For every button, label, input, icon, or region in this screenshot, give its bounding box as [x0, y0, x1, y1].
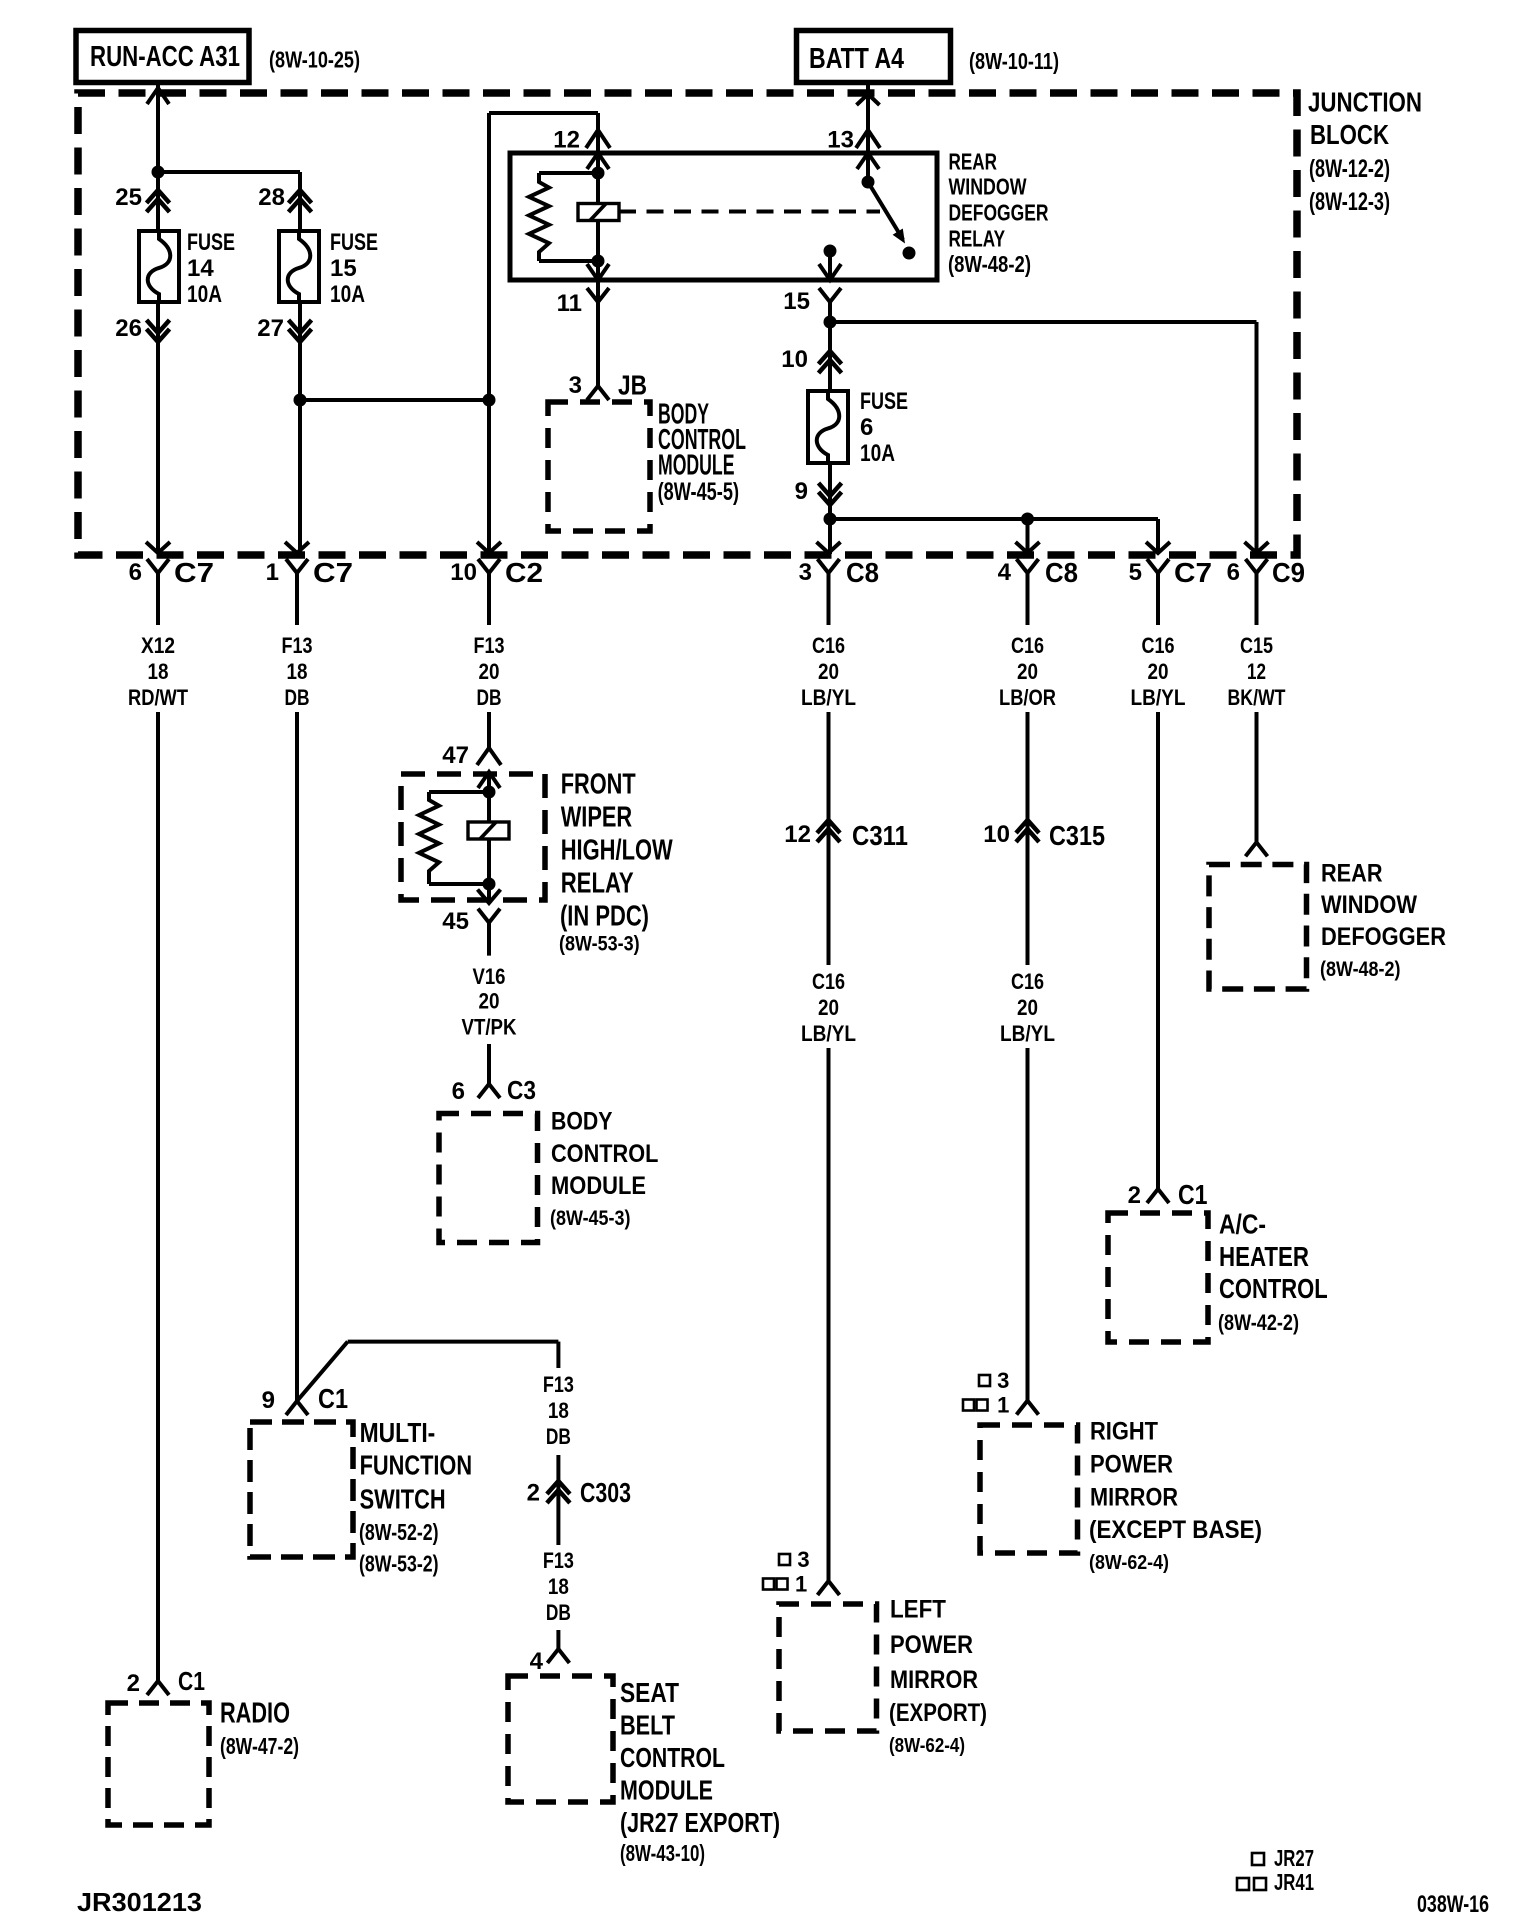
svg-text:2: 2: [127, 1670, 140, 1697]
svg-text:POWER: POWER: [890, 1631, 973, 1659]
svg-text:C303: C303: [580, 1477, 631, 1508]
svg-text:VT/PK: VT/PK: [462, 1014, 517, 1039]
svg-text:3: 3: [569, 372, 582, 399]
svg-text:9: 9: [262, 1387, 275, 1414]
svg-text:(8W-45-5): (8W-45-5): [658, 478, 739, 506]
svg-text:13: 13: [827, 127, 854, 154]
svg-text:(8W-53-2): (8W-53-2): [359, 1551, 439, 1577]
svg-text:18: 18: [548, 1398, 569, 1423]
svg-text:WIPER: WIPER: [561, 802, 633, 834]
svg-text:BODY: BODY: [551, 1107, 613, 1135]
svg-text:C311: C311: [852, 820, 908, 851]
svg-text:JR27: JR27: [1274, 1845, 1314, 1871]
svg-text:(8W-53-3): (8W-53-3): [559, 933, 640, 956]
svg-text:10A: 10A: [187, 281, 222, 308]
svg-text:FUSE: FUSE: [187, 229, 235, 256]
svg-text:CONTROL: CONTROL: [551, 1140, 658, 1168]
svg-text:WINDOW: WINDOW: [949, 174, 1027, 200]
svg-text:JB: JB: [618, 370, 647, 401]
svg-text:SWITCH: SWITCH: [360, 1483, 446, 1514]
svg-text:FRONT: FRONT: [561, 769, 636, 801]
svg-text:1: 1: [795, 1572, 807, 1597]
svg-text:6: 6: [129, 559, 142, 586]
svg-text:SEAT: SEAT: [620, 1677, 679, 1708]
svg-text:C16: C16: [1142, 633, 1175, 658]
svg-text:(8W-48-2): (8W-48-2): [1320, 958, 1401, 981]
svg-text:10A: 10A: [860, 440, 895, 467]
svg-text:(8W-62-4): (8W-62-4): [1089, 1552, 1169, 1574]
svg-text:BELT: BELT: [620, 1710, 675, 1741]
svg-text:9: 9: [795, 478, 808, 505]
svg-text:(8W-12-2): (8W-12-2): [1309, 155, 1390, 183]
svg-text:RUN-ACC A31: RUN-ACC A31: [90, 41, 240, 73]
svg-text:F13: F13: [543, 1548, 574, 1573]
svg-text:CONTROL: CONTROL: [620, 1742, 725, 1773]
svg-text:BK/WT: BK/WT: [1228, 685, 1286, 710]
svg-text:(8W-48-2): (8W-48-2): [948, 251, 1031, 277]
svg-text:REAR: REAR: [949, 149, 998, 175]
svg-text:LEFT: LEFT: [890, 1596, 946, 1624]
svg-text:JR301213: JR301213: [77, 1887, 202, 1917]
svg-text:BLOCK: BLOCK: [1310, 119, 1389, 150]
svg-text:FUSE: FUSE: [860, 388, 908, 415]
svg-text:RADIO: RADIO: [220, 1698, 290, 1730]
svg-text:C9: C9: [1272, 557, 1305, 588]
svg-text:26: 26: [115, 315, 142, 342]
svg-text:C1: C1: [1178, 1179, 1208, 1210]
svg-text:47: 47: [442, 742, 469, 769]
svg-text:C2: C2: [505, 557, 543, 588]
svg-text:1: 1: [997, 1393, 1009, 1418]
svg-text:(IN PDC): (IN PDC): [560, 901, 649, 933]
svg-text:(8W-43-10): (8W-43-10): [620, 1840, 705, 1866]
svg-text:10: 10: [781, 346, 808, 373]
svg-text:A/C-: A/C-: [1219, 1209, 1266, 1240]
svg-text:FUNCTION: FUNCTION: [360, 1450, 473, 1481]
svg-text:C7: C7: [313, 557, 353, 588]
svg-text:20: 20: [1017, 659, 1038, 684]
svg-text:1: 1: [266, 559, 279, 586]
svg-text:X12: X12: [141, 633, 175, 658]
svg-text:POWER: POWER: [1090, 1450, 1173, 1478]
svg-text:(8W-47-2): (8W-47-2): [220, 1733, 299, 1759]
svg-text:25: 25: [115, 184, 142, 211]
svg-text:RELAY: RELAY: [949, 226, 1006, 252]
svg-text:DEFOGGER: DEFOGGER: [1321, 923, 1446, 951]
svg-text:C16: C16: [812, 633, 845, 658]
svg-text:14: 14: [187, 255, 214, 282]
svg-text:DB: DB: [546, 1424, 571, 1449]
svg-text:4: 4: [530, 1648, 544, 1675]
svg-text:LB/YL: LB/YL: [1131, 685, 1186, 710]
svg-text:10A: 10A: [330, 281, 365, 308]
svg-text:MIRROR: MIRROR: [890, 1666, 978, 1694]
svg-text:45: 45: [442, 908, 469, 935]
svg-text:10: 10: [450, 559, 477, 586]
svg-text:MODULE: MODULE: [620, 1775, 713, 1806]
svg-text:3: 3: [799, 559, 812, 586]
svg-text:C7: C7: [1174, 557, 1212, 588]
svg-text:12: 12: [1247, 659, 1266, 684]
svg-text:WINDOW: WINDOW: [1321, 891, 1417, 919]
svg-text:C8: C8: [1045, 557, 1078, 588]
svg-text:BATT A4: BATT A4: [809, 43, 904, 75]
svg-text:(8W-12-3): (8W-12-3): [1309, 188, 1390, 216]
svg-text:18: 18: [287, 659, 308, 684]
svg-text:C1: C1: [318, 1383, 348, 1414]
svg-text:28: 28: [258, 184, 285, 211]
svg-text:C3: C3: [507, 1075, 536, 1105]
svg-text:DB: DB: [477, 685, 502, 710]
svg-text:C1: C1: [178, 1666, 205, 1696]
svg-text:HIGH/LOW: HIGH/LOW: [561, 835, 673, 867]
svg-text:LB/OR: LB/OR: [999, 685, 1056, 710]
svg-text:HEATER: HEATER: [1219, 1241, 1309, 1272]
svg-text:6: 6: [1227, 559, 1240, 586]
svg-text:6: 6: [860, 414, 873, 441]
svg-text:MIRROR: MIRROR: [1090, 1483, 1178, 1511]
svg-text:LB/YL: LB/YL: [1000, 1021, 1055, 1046]
svg-text:4: 4: [998, 559, 1012, 586]
svg-text:20: 20: [1017, 995, 1038, 1020]
svg-text:20: 20: [479, 988, 500, 1013]
svg-text:(8W-62-4): (8W-62-4): [889, 1735, 965, 1757]
svg-text:2: 2: [1128, 1182, 1141, 1209]
svg-text:12: 12: [784, 821, 811, 848]
svg-text:MODULE: MODULE: [551, 1172, 646, 1200]
svg-text:6: 6: [452, 1078, 465, 1105]
svg-text:27: 27: [257, 315, 284, 342]
svg-text:(EXCEPT BASE): (EXCEPT BASE): [1089, 1516, 1262, 1544]
svg-text:(JR27 EXPORT): (JR27 EXPORT): [620, 1807, 780, 1838]
svg-text:C15: C15: [1240, 633, 1273, 658]
svg-text:F13: F13: [282, 633, 313, 658]
svg-text:MULTI-: MULTI-: [360, 1417, 436, 1448]
svg-text:MODULE: MODULE: [658, 450, 735, 482]
svg-text:(8W-52-2): (8W-52-2): [359, 1519, 439, 1545]
svg-text:JR41: JR41: [1274, 1869, 1314, 1895]
svg-text:LB/YL: LB/YL: [801, 1021, 856, 1046]
svg-text:REAR: REAR: [1321, 860, 1383, 888]
svg-text:20: 20: [479, 659, 500, 684]
svg-text:20: 20: [1148, 659, 1169, 684]
svg-text:11: 11: [557, 290, 582, 317]
svg-text:CONTROL: CONTROL: [1219, 1273, 1328, 1304]
svg-text:3: 3: [997, 1368, 1009, 1393]
svg-text:JUNCTION: JUNCTION: [1308, 87, 1422, 118]
svg-text:(8W-10-25): (8W-10-25): [269, 47, 360, 73]
svg-text:RIGHT: RIGHT: [1090, 1418, 1158, 1446]
svg-text:12: 12: [553, 127, 580, 154]
svg-text:20: 20: [818, 995, 839, 1020]
svg-text:18: 18: [548, 1574, 569, 1599]
svg-text:DEFOGGER: DEFOGGER: [949, 200, 1049, 226]
svg-text:15: 15: [330, 255, 357, 282]
svg-text:DB: DB: [285, 685, 310, 710]
svg-text:038W-16: 038W-16: [1417, 1891, 1489, 1918]
svg-text:2: 2: [527, 1480, 540, 1507]
svg-text:C8: C8: [846, 557, 879, 588]
svg-text:C315: C315: [1049, 820, 1105, 851]
svg-text:C7: C7: [174, 557, 214, 588]
svg-text:F13: F13: [543, 1372, 574, 1397]
svg-text:10: 10: [983, 821, 1010, 848]
svg-text:(8W-42-2): (8W-42-2): [1218, 1310, 1299, 1335]
svg-text:RD/WT: RD/WT: [128, 685, 188, 710]
svg-text:(8W-10-11): (8W-10-11): [969, 48, 1059, 74]
svg-text:V16: V16: [473, 964, 506, 989]
svg-text:C16: C16: [812, 969, 845, 994]
svg-text:3: 3: [797, 1547, 809, 1572]
svg-text:LB/YL: LB/YL: [801, 685, 856, 710]
svg-text:RELAY: RELAY: [561, 868, 634, 900]
svg-text:5: 5: [1129, 559, 1142, 586]
svg-text:C16: C16: [1011, 633, 1044, 658]
svg-text:F13: F13: [474, 633, 505, 658]
svg-text:20: 20: [818, 659, 839, 684]
svg-text:15: 15: [783, 288, 810, 315]
svg-text:(EXPORT): (EXPORT): [889, 1699, 987, 1727]
svg-text:C16: C16: [1011, 969, 1044, 994]
svg-text:DB: DB: [546, 1600, 571, 1625]
svg-text:FUSE: FUSE: [330, 229, 378, 256]
svg-text:(8W-45-3): (8W-45-3): [550, 1207, 631, 1230]
svg-text:18: 18: [148, 659, 169, 684]
